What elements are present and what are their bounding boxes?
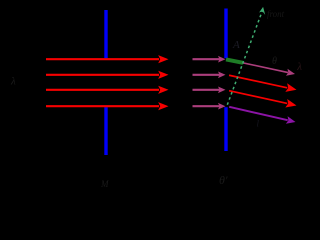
- wavefront line L2 top segment: [224, 9, 227, 59]
- wavefront segment AB (thick green): [226, 59, 243, 62]
- incident ray 4: [46, 102, 169, 110]
- wavefront line L1 bottom segment: [104, 107, 107, 155]
- wavefront line L2 bottom segment: [224, 107, 227, 151]
- approach ray 4 (pink): [193, 103, 226, 110]
- svg-text:front: front: [267, 9, 285, 19]
- approach ray 1 (pink): [193, 56, 226, 63]
- wavefront line L1 top segment: [104, 10, 107, 58]
- incident ray 1: [46, 55, 169, 63]
- diffracted ray 3 (red oblique): [228, 86, 297, 109]
- diffracted ray 2 (red oblique): [228, 71, 297, 94]
- incident ray 2: [46, 71, 169, 79]
- svg-text:θ′: θ′: [219, 173, 228, 187]
- svg-text:λ: λ: [296, 61, 302, 73]
- svg-text:θ: θ: [272, 56, 277, 67]
- diffracted ray 4 (purple oblique): [228, 103, 296, 126]
- svg-text:M: M: [100, 179, 109, 189]
- diffracted ray 1 (pink oblique): [227, 56, 296, 77]
- incident ray 3: [46, 86, 169, 94]
- svg-text:λ: λ: [10, 76, 16, 88]
- new wavefront direction (green dashed arrow): [227, 7, 265, 105]
- approach ray 3 (pink): [193, 87, 226, 94]
- approach ray 2 (pink): [193, 72, 226, 79]
- svg-text:A: A: [232, 39, 240, 51]
